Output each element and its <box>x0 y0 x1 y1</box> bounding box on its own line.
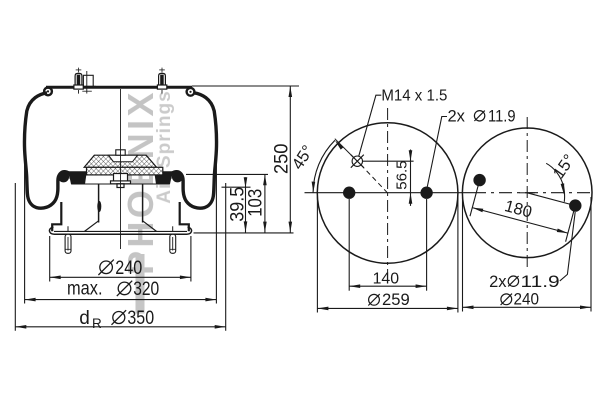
label dia259 <box>368 291 409 309</box>
svg-text:2x: 2x <box>448 108 466 126</box>
piston wall right <box>142 184 144 223</box>
M14 air fitting symbol <box>351 155 364 168</box>
label 2x dia11.9 bottom <box>489 273 560 291</box>
bolt hole circle2 left <box>473 174 485 186</box>
56.5 dimension <box>363 150 414 206</box>
watermark logo bar <box>136 254 145 314</box>
bottom stud right <box>170 226 176 253</box>
180 dimension <box>470 184 574 241</box>
svg-text:d: d <box>79 308 90 329</box>
svg-text:180: 180 <box>503 197 534 222</box>
watermark PHOENIX <box>120 89 162 275</box>
top plate left curl <box>44 88 52 96</box>
center bolt below bumper <box>111 174 131 188</box>
top plate <box>46 86 192 89</box>
dia240 dimension right <box>463 197 592 312</box>
dimension dia240 bottom <box>50 236 191 282</box>
centerline vertical circle2 <box>526 117 528 268</box>
piston wall left <box>98 184 100 223</box>
label dR dia350 <box>79 308 154 331</box>
piston section dot <box>97 201 101 212</box>
svg-text:45°: 45° <box>289 142 318 173</box>
bead clamp right (black) <box>155 172 172 184</box>
dimension 103 <box>263 174 267 233</box>
svg-text:R: R <box>92 316 102 331</box>
svg-text:140: 140 <box>373 270 400 287</box>
extension line top (250) <box>192 85 299 87</box>
piston underside line <box>72 183 170 185</box>
bottom plate <box>49 227 191 234</box>
svg-text:240: 240 <box>115 258 142 279</box>
bellows outer wall left <box>24 93 71 208</box>
stud top-right M12 <box>157 68 166 94</box>
15 deg line <box>527 193 575 206</box>
svg-text:11.9: 11.9 <box>488 108 516 126</box>
label 2x dia11.9 top <box>448 108 516 126</box>
svg-text:15°: 15° <box>550 151 579 182</box>
M14 leader <box>359 95 382 156</box>
extension lines from holes <box>348 199 350 291</box>
45 deg arc <box>313 140 335 193</box>
label dia240 left view <box>98 258 142 279</box>
center cross circle2 <box>520 192 536 194</box>
bead clamp left (black) <box>69 172 86 184</box>
leader 2x dia11.9 bottom <box>560 212 575 281</box>
bolt hole circle1 right <box>420 187 432 199</box>
svg-text:11.9: 11.9 <box>521 273 560 291</box>
bolt hole circle2 right <box>569 199 581 211</box>
circle view 2 (dia240) <box>462 128 592 258</box>
svg-text:2x: 2x <box>489 273 507 291</box>
svg-text:320: 320 <box>133 279 159 300</box>
svg-text:103: 103 <box>244 189 266 217</box>
svg-text:259: 259 <box>382 291 410 309</box>
extension line lobe (39.5) <box>222 186 251 188</box>
15 deg arc <box>546 163 564 202</box>
piston flare right <box>143 221 157 232</box>
extension line bottom <box>194 232 294 234</box>
label dia240 right <box>501 291 539 309</box>
dimension max dia320 <box>25 158 217 304</box>
piston outer lower right <box>180 202 189 231</box>
dimension 250 <box>289 86 293 233</box>
bellows outer wall right <box>170 93 217 208</box>
piston flare left <box>85 221 99 232</box>
45 deg dashed line <box>361 165 387 193</box>
svg-text:max.: max. <box>67 279 103 300</box>
bumper cushion (hatched) <box>84 155 156 167</box>
bumper top tab <box>116 150 125 155</box>
bumper base band (hatched) <box>87 167 163 175</box>
bumper recess (white) <box>109 155 138 162</box>
svg-text:350: 350 <box>127 308 154 329</box>
extension line piston top (103) <box>186 173 268 175</box>
bolt hole circle1 left <box>343 187 355 199</box>
dia259 dimension <box>317 197 458 313</box>
top plate right curl <box>187 88 195 96</box>
leader 2x dia11.9 top <box>427 117 447 187</box>
circle view 1 (dia259) <box>317 123 458 264</box>
svg-text:M14 x 1.5: M14 x 1.5 <box>381 88 447 105</box>
stud detail rect <box>83 75 93 87</box>
dimension dR dia350 <box>15 183 225 331</box>
label max. dia320 <box>67 279 159 300</box>
bellows fold curl right (black fill) <box>172 171 183 182</box>
piston outer lower left <box>52 202 61 231</box>
bottom stud left <box>65 226 71 253</box>
centerline horizontal <box>305 192 474 194</box>
svg-text:56.5: 56.5 <box>393 160 410 189</box>
svg-text:240: 240 <box>514 291 540 309</box>
dimension 39.5 <box>244 177 248 233</box>
centerline left view <box>120 89 122 249</box>
centerline vertical circle1 <box>387 108 389 273</box>
watermark Air Springs <box>154 90 176 203</box>
bellows fold curl left (black fill) <box>58 171 69 182</box>
140 dimension <box>349 284 426 288</box>
stud top-left M12 <box>74 68 83 94</box>
svg-text:250: 250 <box>272 144 293 175</box>
